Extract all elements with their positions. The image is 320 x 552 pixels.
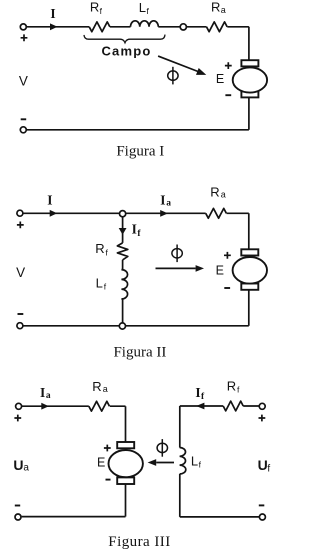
svg-text:a: a	[166, 199, 171, 209]
svg-text:a: a	[221, 190, 226, 200]
svg-text:f: f	[137, 229, 141, 239]
svg-text:E: E	[216, 72, 224, 86]
svg-text:f: f	[106, 247, 109, 257]
svg-text:Campo: Campo	[101, 43, 151, 58]
svg-text:a: a	[221, 5, 226, 15]
svg-text:I: I	[47, 193, 52, 208]
svg-text:f: f	[199, 460, 202, 470]
svg-text:L: L	[191, 453, 198, 468]
svg-text:R: R	[95, 241, 104, 256]
svg-text:Figura I: Figura I	[116, 143, 164, 159]
svg-text:a: a	[23, 462, 29, 473]
svg-text:U: U	[258, 457, 268, 473]
svg-text:E: E	[216, 264, 224, 278]
svg-text:V: V	[16, 265, 25, 280]
svg-text:f: f	[100, 6, 103, 16]
svg-text:a: a	[46, 391, 51, 401]
svg-text:U: U	[13, 457, 23, 473]
svg-text:L: L	[139, 0, 146, 15]
svg-text:R: R	[227, 379, 236, 394]
svg-text:R: R	[211, 0, 220, 15]
svg-text:R: R	[90, 0, 99, 15]
svg-text:I: I	[132, 221, 137, 236]
svg-text:R: R	[210, 185, 219, 200]
svg-text:I: I	[195, 385, 200, 400]
svg-text:E: E	[97, 455, 105, 469]
svg-text:f: f	[201, 392, 205, 402]
svg-text:f: f	[267, 464, 270, 475]
svg-text:f: f	[147, 6, 150, 16]
svg-text:Figura II: Figura II	[113, 344, 166, 360]
svg-text:f: f	[104, 281, 107, 291]
svg-text:Figura III: Figura III	[108, 534, 170, 550]
svg-text:I: I	[40, 385, 45, 400]
svg-text:I: I	[50, 6, 55, 21]
svg-text:L: L	[96, 275, 103, 290]
svg-text:I: I	[160, 193, 165, 208]
svg-text:a: a	[103, 384, 108, 394]
svg-text:V: V	[19, 74, 28, 89]
svg-text:f: f	[237, 385, 240, 395]
svg-text:R: R	[92, 379, 101, 394]
